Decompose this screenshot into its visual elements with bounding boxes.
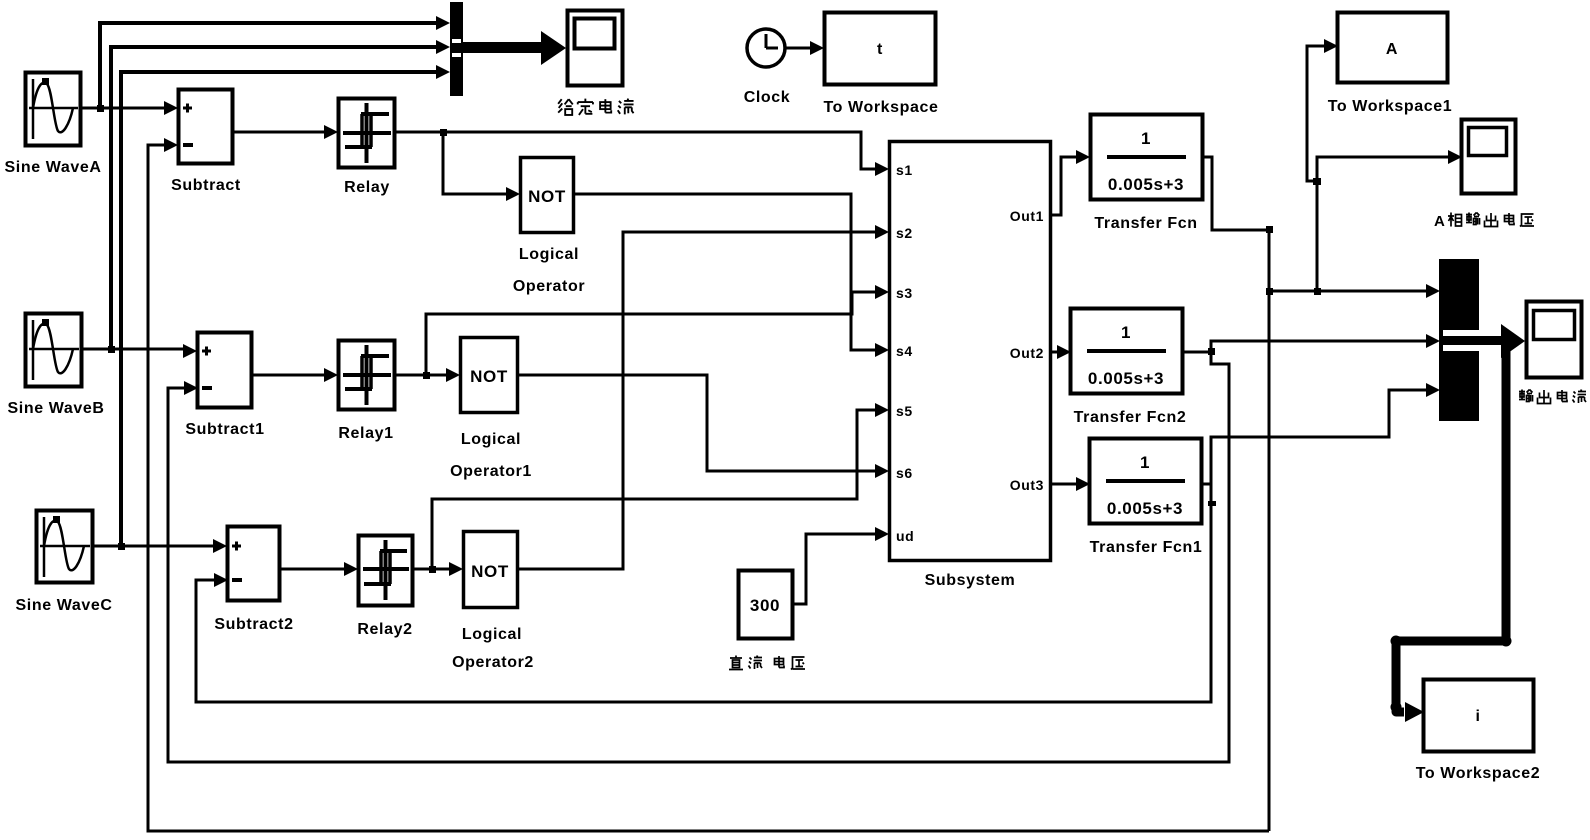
wire Sine WaveA branch up to left mux input 1 [100, 16, 450, 108]
label Chinese A-phase output voltage (under A scope) [1434, 213, 1534, 231]
svg-text:Logical: Logical [519, 246, 579, 263]
svg-text:Operator1: Operator1 [450, 463, 532, 480]
svg-text:Operator2: Operator2 [452, 654, 534, 671]
svg-text:1: 1 [1121, 323, 1131, 342]
wire Relay2 output branch up to subsystem s5 input [432, 403, 889, 569]
block Logical Operator2 NOT [452, 532, 534, 672]
source block Clock [744, 29, 791, 106]
svg-text:To Workspace: To Workspace [823, 99, 938, 116]
svg-text:t: t [877, 41, 883, 58]
wire Subtract1 output to Relay1 input [252, 368, 338, 382]
svg-text:A: A [1434, 213, 1445, 230]
node junction on Sine WaveA output [97, 105, 104, 112]
wire Sine WaveC branch up to left mux input 3 [121, 65, 450, 546]
wire Relay output branch down to Logical Operator NOT input [443, 132, 520, 201]
svg-text:s1: s1 [896, 162, 913, 178]
wire Logical Operator NOT output to subsystem s4 input [574, 194, 889, 357]
node junction on Transfer Fcn2 output [1208, 348, 1215, 355]
block Subtract2 [214, 527, 293, 634]
svg-text:To Workspace2: To Workspace2 [1416, 765, 1541, 782]
wire phase A signal long feedback down right side [1268, 230, 1271, 831]
svg-text:1: 1 [1141, 129, 1151, 148]
block Transfer Fcn2 [1071, 309, 1187, 427]
node junction on Relay output [440, 129, 447, 136]
wire Transfer Fcn1 output up to right mux input 3 [1211, 383, 1440, 484]
wire subsystem Out2 to Transfer Fcn2 input [1051, 345, 1071, 359]
svg-text:300: 300 [750, 596, 780, 615]
wire phase A branch up toward To Workspace1 and scope [1307, 39, 1338, 291]
source block Sine WaveA [5, 73, 102, 177]
block Relay [339, 99, 395, 197]
wire left mux thick output to top scope [463, 31, 566, 65]
label Chinese output current (right scope) [1519, 390, 1586, 404]
svg-text:s5: s5 [896, 403, 913, 419]
wire phase A feedback bottom line to Subtract minus input [148, 138, 1269, 831]
svg-text:Out3: Out3 [1010, 477, 1044, 493]
wire Subtract2 output to Relay2 input [279, 562, 358, 576]
label Chinese given current (top scope) [558, 99, 633, 115]
svg-text:Logical: Logical [462, 626, 522, 643]
svg-text:Transfer Fcn2: Transfer Fcn2 [1074, 409, 1187, 426]
constant block 300 [739, 571, 793, 639]
node junction on Transfer Fcn1 output [1201, 484, 1216, 506]
wire phase A to right mux input 1 [1269, 284, 1440, 298]
svg-text:0.005s+3: 0.005s+3 [1107, 499, 1183, 518]
wire thick branch down to To Workspace2 i [1391, 345, 1512, 722]
block To Workspace2 i [1416, 680, 1541, 783]
wire Sine WaveA output to Subtract plus input [81, 101, 178, 115]
svg-text:Transfer Fcn: Transfer Fcn [1094, 215, 1197, 232]
wire phase A branch to A-phase voltage scope [1317, 150, 1462, 181]
svg-text:0.005s+3: 0.005s+3 [1108, 175, 1184, 194]
svg-text:A: A [1386, 41, 1398, 58]
svg-text:To Workspace1: To Workspace1 [1328, 98, 1453, 115]
svg-text:Subtract2: Subtract2 [214, 616, 293, 633]
svg-text:Relay: Relay [344, 179, 390, 196]
wire Sine WaveC output to Subtract2 plus input [92, 539, 227, 553]
wire Logical Operator2 NOT output to subsystem s2 input [517, 225, 889, 569]
wire Clock to To Workspace t [785, 41, 824, 55]
svg-text:ud: ud [896, 528, 914, 544]
block To Workspace t [823, 13, 938, 117]
svg-text:Relay1: Relay1 [338, 425, 393, 442]
wire Transfer Fcn output routing down to node A1 [1203, 157, 1273, 233]
node junction on Relay1 output [423, 372, 430, 379]
wire Logical Operator1 NOT output to subsystem s6 input [517, 375, 889, 478]
wire Subtract output to Relay input [233, 125, 338, 139]
svg-text:0.005s+3: 0.005s+3 [1088, 369, 1164, 388]
svg-text:s4: s4 [896, 343, 913, 359]
svg-text:Out1: Out1 [1010, 208, 1044, 224]
svg-text:Sine WaveC: Sine WaveC [16, 597, 113, 614]
scope block top (given current scope) [568, 11, 623, 86]
wire phase B feedback down to Subtract1 minus input [168, 352, 1229, 762]
svg-text:Subtract: Subtract [171, 177, 241, 194]
wire right mux thick output to output current scope [1479, 324, 1525, 358]
wire phase C feedback down to Subtract2 minus input [196, 484, 1211, 702]
wire subsystem Out1 to Transfer Fcn input [1051, 150, 1090, 215]
wire Sine WaveB branch up to left mux input 2 [111, 40, 450, 349]
svg-text:Out2: Out2 [1010, 345, 1044, 361]
block To Workspace1 A [1328, 13, 1453, 116]
node junction on Relay2 output [429, 566, 436, 573]
svg-text:NOT: NOT [471, 562, 509, 581]
svg-text:Subsystem: Subsystem [925, 572, 1016, 589]
scope block output current [1527, 302, 1582, 378]
scope block A-phase output voltage [1462, 120, 1516, 194]
svg-text:Sine WaveB: Sine WaveB [8, 400, 105, 417]
wire Transfer Fcn2 output to right mux input 2 [1182, 334, 1440, 352]
svg-text:s3: s3 [896, 285, 913, 301]
svg-text:Clock: Clock [744, 89, 791, 106]
svg-text:Relay2: Relay2 [357, 621, 412, 638]
block Relay1 [338, 341, 394, 443]
svg-text:Logical: Logical [461, 431, 521, 448]
svg-text:i: i [1475, 708, 1480, 725]
svg-text:NOT: NOT [528, 187, 566, 206]
svg-text:NOT: NOT [470, 367, 508, 386]
svg-text:Transfer Fcn1: Transfer Fcn1 [1090, 539, 1203, 556]
svg-text:s2: s2 [896, 225, 913, 241]
block Relay2 [357, 536, 412, 639]
svg-text:Subtract1: Subtract1 [185, 421, 264, 438]
wire Sine WaveB output to Subtract1 plus input [82, 344, 197, 358]
block Transfer Fcn1 [1090, 439, 1203, 557]
node junction on Sine WaveC output [118, 543, 125, 550]
svg-text:Sine WaveA: Sine WaveA [5, 159, 102, 176]
mux block left (3-input mux bar) [450, 2, 463, 96]
wire subsystem Out3 to Transfer Fcn1 input [1051, 477, 1090, 491]
wire Relay2 output to Logical Operator2 NOT input [412, 562, 463, 576]
label Chinese DC voltage (under constant 300) [729, 656, 805, 670]
block Subtract [171, 90, 241, 195]
svg-text:s6: s6 [896, 465, 913, 481]
block Transfer Fcn [1091, 115, 1203, 233]
block Logical Operator1 NOT [450, 338, 532, 481]
mux block right (3-input mux bar) [1439, 259, 1479, 421]
node junction phase A branch at x1317 [1314, 288, 1321, 295]
block Subsystem [890, 142, 1051, 590]
wire Relay1 output branch up to subsystem s3 input [426, 285, 889, 375]
block Subtract1 [185, 333, 264, 439]
source block Sine WaveB [8, 314, 105, 418]
source block Sine WaveC [16, 511, 113, 615]
node junction phase A at y291 [1266, 288, 1273, 295]
wire Relay output to subsystem s1 input [395, 132, 889, 176]
svg-text:Operator: Operator [513, 278, 585, 295]
svg-text:1: 1 [1140, 453, 1150, 472]
wire constant 300 to subsystem ud input [791, 527, 889, 604]
wire Relay1 output to Logical Operator1 NOT input [395, 368, 460, 382]
block Logical Operator NOT [513, 158, 585, 296]
node junction on Sine WaveB output [108, 346, 115, 353]
